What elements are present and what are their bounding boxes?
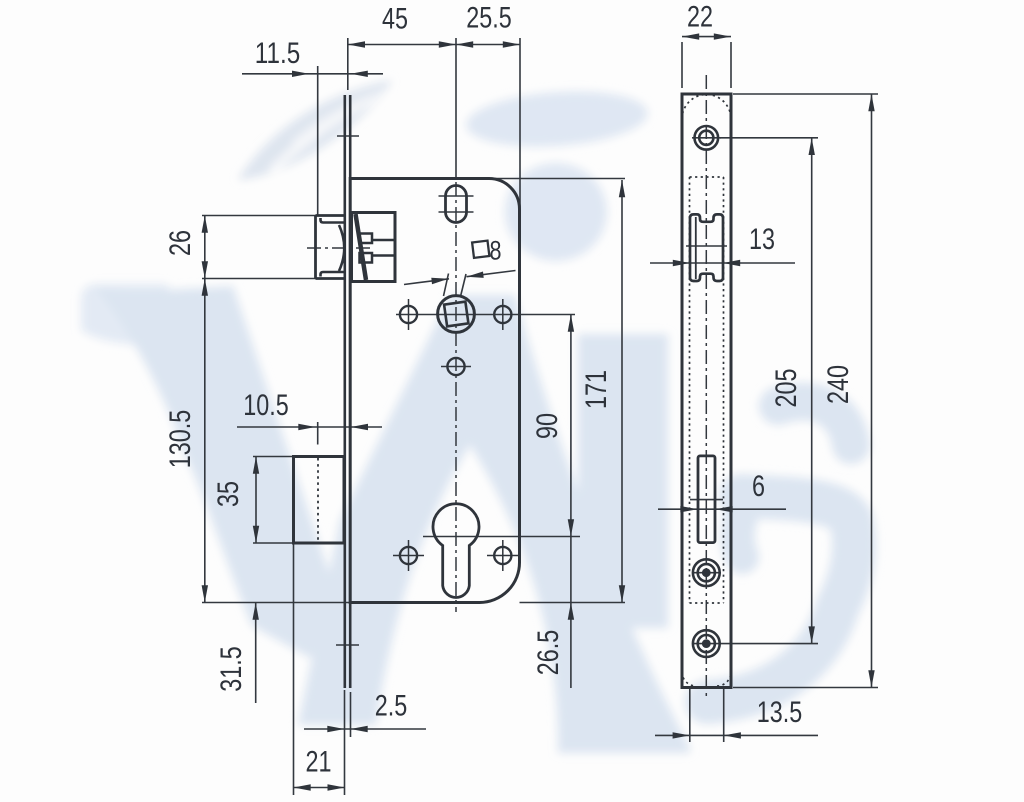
svg-text:26.5: 26.5	[532, 630, 565, 675]
svg-text:31.5: 31.5	[215, 646, 248, 691]
svg-text:45: 45	[382, 3, 408, 36]
svg-text:21: 21	[306, 746, 332, 779]
svg-text:6: 6	[752, 470, 765, 503]
svg-text:205: 205	[770, 369, 803, 408]
svg-text:22: 22	[687, 1, 713, 34]
svg-text:11.5: 11.5	[255, 37, 300, 70]
svg-text:35: 35	[212, 481, 245, 507]
svg-text:90: 90	[531, 413, 564, 439]
svg-text:13: 13	[749, 223, 775, 256]
svg-text:8: 8	[490, 236, 502, 266]
svg-text:2.5: 2.5	[375, 690, 408, 723]
svg-text:130.5: 130.5	[164, 410, 197, 469]
svg-text:25.5: 25.5	[466, 2, 511, 35]
svg-text:240: 240	[822, 365, 855, 404]
svg-text:10.5: 10.5	[243, 389, 288, 422]
svg-text:26: 26	[164, 230, 197, 256]
svg-text:13.5: 13.5	[757, 696, 802, 729]
svg-text:171: 171	[580, 370, 613, 409]
